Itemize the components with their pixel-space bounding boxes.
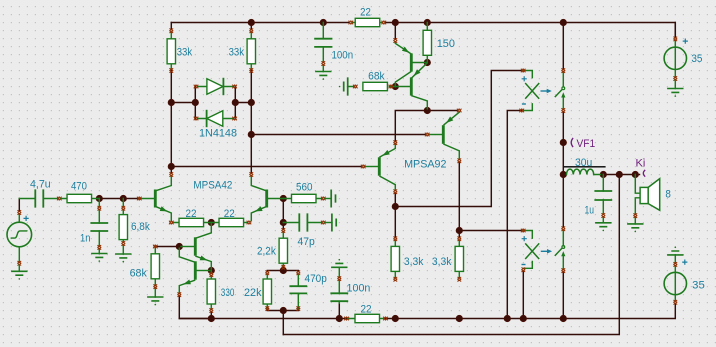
label 100n bottom bbox=[347, 283, 371, 295]
ground (sideways) at 68k R9 bbox=[339, 78, 348, 95]
label 35 top bbox=[691, 53, 702, 65]
node VF1 flag bbox=[571, 138, 573, 147]
wire 33k R1 column (diode tap, mid-wire tap, to Q5 collector) bbox=[170, 71, 172, 173]
capacitor 1n C2 bbox=[91, 199, 107, 254]
svg-text:8: 8 bbox=[665, 188, 671, 200]
ground at 6,8k bbox=[115, 254, 131, 262]
relay contact S1 (upper) bbox=[555, 68, 565, 112]
resistor 22 R6 (emitter right) bbox=[211, 218, 251, 226]
label 470 bbox=[71, 180, 87, 192]
transistor Q8 MPSA92 (VAS lower) bbox=[361, 140, 397, 193]
label 1n bbox=[80, 233, 90, 245]
resistor 2,2k R13 bbox=[279, 228, 287, 269]
resistor 560 R10 bbox=[283, 190, 335, 206]
wire output column (S1 to S2) bbox=[562, 112, 564, 227]
label 1u bbox=[585, 204, 595, 216]
diode D1 1N4148 (upper) bbox=[194, 79, 237, 95]
junction dots relay feeds bbox=[392, 203, 463, 234]
voltage source 35V B1 (top) bbox=[664, 37, 688, 89]
svg-text:22: 22 bbox=[360, 7, 371, 19]
resistor 470 R3 bbox=[61, 194, 99, 202]
wire input corner to source bbox=[18, 199, 20, 211]
wire top rail right segment bbox=[385, 23, 675, 38]
label 3,3k R11 bbox=[404, 256, 424, 268]
ground at 68k R14 bbox=[147, 297, 163, 305]
junction dots diode network bbox=[168, 99, 255, 170]
svg-text:470p: 470p bbox=[305, 273, 327, 285]
svg-text:35: 35 bbox=[691, 53, 702, 65]
svg-text:1N4148: 1N4148 bbox=[199, 128, 237, 140]
label MPSA42 bbox=[193, 180, 232, 192]
label 47p bbox=[298, 236, 315, 248]
wire bottom rail right segment bbox=[385, 304, 675, 319]
transistor Q5 MPSA42 (diff pair left) bbox=[137, 172, 173, 221]
junction dots driver stage bbox=[392, 59, 431, 114]
wire diode bracket left bbox=[171, 87, 195, 119]
label 330 bbox=[221, 287, 235, 299]
wire 35V top source lead bbox=[674, 23, 676, 38]
wire feedback drop from 22k/470p bracket bbox=[282, 311, 284, 335]
svg-text:3,3k: 3,3k bbox=[404, 256, 424, 268]
resistor 150 R8 bbox=[423, 23, 431, 63]
label 22 R6 bbox=[224, 208, 235, 220]
wire 330 bottom lead bbox=[210, 312, 212, 318]
label 150 bbox=[437, 38, 455, 50]
resistor 22k R16 bbox=[263, 271, 271, 311]
wire bottom rail left segment bbox=[179, 318, 349, 320]
wire relay K1 minus drop bbox=[507, 111, 521, 319]
svg-text:1u: 1u bbox=[585, 204, 595, 216]
wire switch S2 to bottom rail bbox=[562, 272, 564, 318]
capacitor 100n C7 (bottom) bbox=[331, 267, 347, 303]
resistor 22 R5 (emitter left) bbox=[169, 218, 211, 226]
label 100n top bbox=[332, 50, 354, 62]
wire 68k top to Q3 base node bbox=[157, 246, 179, 248]
svg-text:33k: 33k bbox=[229, 47, 245, 59]
capacitor 100n C3 (top) bbox=[315, 23, 331, 72]
resistor 3,3k R12 bbox=[455, 237, 463, 282]
wire feedback bottom run to output bbox=[283, 176, 619, 334]
svg-text:560: 560 bbox=[296, 182, 313, 194]
ground at 1n bbox=[91, 254, 107, 262]
label 22 R5 bbox=[186, 208, 197, 220]
transistor Q4 (bias lower) bbox=[177, 248, 209, 297]
resistor 33k R2 bbox=[247, 29, 255, 73]
wire Q4 emitter to bottom rail bbox=[179, 296, 211, 318]
wire Q7 collector to 3,3k R12 bbox=[458, 162, 460, 237]
junction dots bottom rail bbox=[208, 315, 567, 322]
resistor 68k R14 bbox=[151, 245, 159, 297]
label 30u bbox=[575, 157, 592, 169]
junction dots current source bbox=[176, 243, 287, 314]
wire output to Ki terminal bbox=[603, 174, 639, 176]
transistor Q6 MPSA42 (diff pair right) bbox=[249, 172, 283, 221]
wire 100n bottom lead to rail bbox=[338, 301, 340, 318]
svg-text:330: 330 bbox=[221, 287, 235, 299]
capacitor 1u C8 bbox=[595, 175, 611, 223]
label 22 bottom bbox=[361, 304, 372, 316]
label 1N4148 bbox=[199, 128, 237, 140]
wire 33k R2 top lead bbox=[250, 23, 252, 30]
label 33k R2 bbox=[229, 47, 245, 59]
transistor Q1 MPSA92 (limiter upper) bbox=[393, 38, 427, 86]
svg-text:22: 22 bbox=[224, 208, 235, 220]
svg-text:6,8k: 6,8k bbox=[131, 221, 150, 233]
junction dots output line bbox=[560, 139, 639, 178]
svg-text:4,7u: 4,7u bbox=[30, 179, 51, 191]
voltage source 35V B2 (bottom) bbox=[664, 255, 687, 305]
label Ki bbox=[636, 158, 646, 170]
wire 33k R2 column (diode tap, base wire tap, to Q6 collector) bbox=[250, 71, 252, 173]
resistor 6,8k R4 bbox=[119, 199, 127, 255]
label 470p bbox=[305, 273, 327, 285]
ground at 1u C8 bbox=[595, 223, 611, 231]
svg-text:3,3k: 3,3k bbox=[432, 256, 452, 268]
label MPSA92 bbox=[404, 158, 446, 170]
junction dots input stage bbox=[96, 195, 287, 226]
svg-text:22: 22 bbox=[361, 304, 372, 316]
label 68k top bbox=[368, 71, 385, 83]
capacitor 47p C5 bbox=[283, 214, 336, 230]
svg-text:2,2k: 2,2k bbox=[257, 246, 276, 258]
signal source V1 bbox=[7, 210, 32, 271]
inductor 30u L1 bbox=[564, 167, 606, 175]
wire bracket bottom of 22k/470p bbox=[267, 309, 298, 312]
svg-text:30u: 30u bbox=[575, 157, 592, 169]
capacitor 4,7u C1 bbox=[19, 190, 61, 206]
svg-text:MPSA92: MPSA92 bbox=[404, 158, 446, 170]
svg-text:MPSA42: MPSA42 bbox=[193, 180, 232, 192]
wire Q1 emitter drop from rail bbox=[394, 23, 396, 39]
resistor 22 R17 (bottom rail) bbox=[344, 314, 387, 322]
mechanical link arrow K2 bbox=[541, 249, 552, 254]
label 22 top bbox=[360, 7, 371, 19]
relay coil K2 (lower) bbox=[521, 229, 539, 272]
ground (inverted) at 35V B2 bbox=[667, 247, 683, 255]
wire relay K1 plus run bbox=[395, 71, 521, 207]
label 8 bbox=[665, 188, 671, 200]
ground at 35V B1 bbox=[667, 89, 683, 97]
resistor 3,3k R11 bbox=[391, 237, 399, 282]
resistor 22 R7 (top rail) bbox=[349, 18, 386, 26]
transistor Q3 (bias upper) bbox=[181, 224, 211, 269]
wire switch S1 feed from rail bbox=[562, 23, 564, 70]
resistor 33k R1 bbox=[167, 29, 175, 73]
wire mid horizontal (Q5 collector to Q8 base) bbox=[171, 166, 361, 168]
wire relay K2 plus run bbox=[459, 230, 521, 232]
svg-text:Ki: Ki bbox=[636, 158, 646, 170]
transistor Q2 MPSA92 (limiter lower) bbox=[395, 63, 427, 109]
transistor Q7 MPSA92 (VAS upper) bbox=[425, 109, 461, 163]
svg-text:100n: 100n bbox=[332, 50, 354, 62]
label 4,7u bbox=[30, 179, 51, 191]
wire 33k R1 top lead bbox=[170, 23, 172, 30]
label 68k R14 bbox=[130, 267, 148, 279]
relay contact S2 (lower) bbox=[555, 227, 565, 273]
svg-text:470: 470 bbox=[71, 180, 87, 192]
svg-text:100n: 100n bbox=[347, 283, 371, 295]
resistor 330 R15 bbox=[207, 271, 215, 313]
label 33k R1 bbox=[177, 47, 193, 59]
junction dots top rail bbox=[248, 19, 567, 26]
ground (inverted) at 100n C7 bbox=[331, 259, 347, 267]
svg-text:1n: 1n bbox=[80, 233, 90, 245]
svg-text:47p: 47p bbox=[298, 236, 315, 248]
ground at speaker bbox=[627, 224, 643, 232]
svg-text:22k: 22k bbox=[244, 287, 262, 299]
label 22k bbox=[244, 287, 262, 299]
wire bracket top of 22k/470p bbox=[267, 270, 298, 273]
svg-text:22: 22 bbox=[186, 208, 197, 220]
wire diode bracket right bbox=[235, 87, 251, 119]
wire Q8 collector to 3,3k R11 bbox=[394, 193, 396, 237]
resistor 68k R9 (top) bbox=[348, 82, 396, 90]
label 35 bottom bbox=[692, 280, 705, 292]
svg-text:35: 35 bbox=[692, 280, 705, 292]
label 3,3k R12 bbox=[432, 256, 452, 268]
svg-text:VF1: VF1 bbox=[577, 138, 596, 150]
svg-text:68k: 68k bbox=[130, 267, 148, 279]
svg-text:150: 150 bbox=[437, 38, 455, 50]
label 560 bbox=[296, 182, 313, 194]
wire base horizontal (33k R2 to Q7 base) bbox=[251, 134, 425, 136]
wire top rail left segment bbox=[171, 22, 349, 24]
ground at 100n C3 bbox=[315, 72, 331, 80]
svg-text:68k: 68k bbox=[368, 71, 385, 83]
node Ki flag bbox=[643, 170, 645, 177]
ground at signal source bbox=[11, 271, 27, 279]
label VF1 bbox=[577, 138, 596, 150]
relay coil K1 (upper) bbox=[520, 69, 539, 113]
label 2,2k bbox=[257, 246, 276, 258]
wire input node (470 to base pin) bbox=[99, 198, 137, 200]
label 6,8k bbox=[131, 221, 150, 233]
capacitor 470p C6 bbox=[290, 271, 306, 311]
wire Q2 collector node horizontal bbox=[395, 111, 457, 142]
wire 2,2k node vertical (560/47p taps) bbox=[282, 199, 284, 229]
svg-text:33k: 33k bbox=[177, 47, 193, 59]
diode D2 1N4148 (lower) bbox=[194, 111, 237, 127]
speaker Ki 8 ohm bbox=[633, 175, 659, 224]
wire relay K2 minus drop bbox=[522, 271, 524, 318]
mechanical link arrow K1 bbox=[541, 89, 552, 94]
